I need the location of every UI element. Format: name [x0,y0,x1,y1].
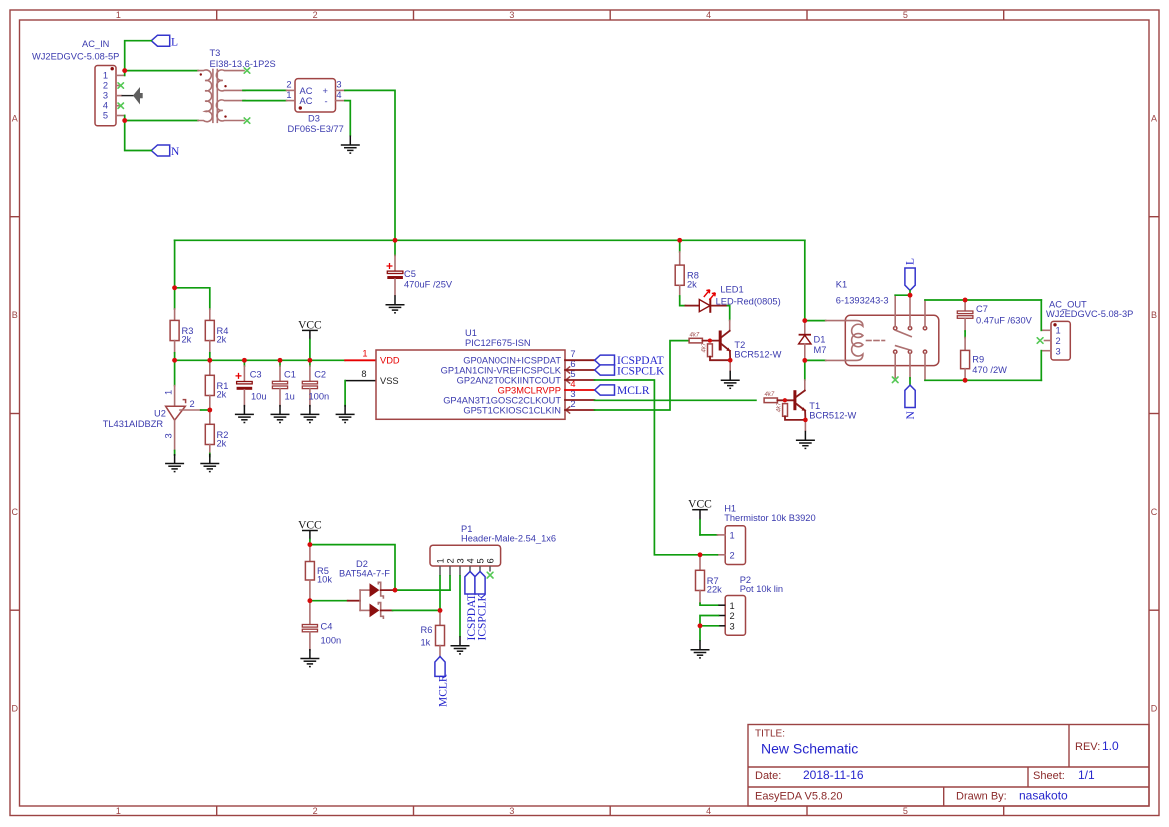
resistor R1 [205,362,228,412]
svg-text:REV:: REV: [1075,741,1100,753]
svg-text:3: 3 [103,91,108,101]
svg-text:4k7: 4k7 [690,332,700,338]
wire D1 to T1 collector [804,360,806,380]
svg-text:0.47uF /630V: 0.47uF /630V [976,316,1033,326]
ground U2 [165,454,184,472]
net flag MCLR [595,385,650,397]
svg-text:N: N [905,411,917,420]
wire D3 pin4 to ground [345,101,350,136]
IC U1 PIC12F675-ISN [376,328,595,419]
wire C7 node to AC_OUT pin1 [1040,300,1042,330]
capacitor C2 [302,360,329,406]
net flag ICSPCLK (P1) [475,572,488,641]
svg-text:1: 1 [436,558,446,563]
svg-text:100n: 100n [309,392,330,402]
wire D2 bottom node to P1 pin1 / R6 [393,608,443,613]
wire P1 pin3 to ground [459,576,461,636]
svg-text:1: 1 [103,71,108,81]
svg-text:1: 1 [164,390,174,395]
wire D3 pin3 to rail [345,90,395,240]
svg-text:1: 1 [730,530,735,540]
svg-text:D1: D1 [814,334,826,344]
svg-text:T3: T3 [210,48,221,58]
net flag N (relay) [905,378,917,420]
svg-text:LED1: LED1 [720,284,743,294]
svg-text:T2: T2 [734,340,745,350]
svg-text:ICSPCLK: ICSPCLK [476,593,488,641]
wire D2 top node to P1 pin2 [395,589,450,591]
power VCC [298,319,322,360]
svg-text:GP0AN0CIN+ICSPDAT: GP0AN0CIN+ICSPDAT [463,356,561,366]
wire R5/C4 node to D2 [310,600,360,602]
transistor T2 BCR512-W [689,320,782,370]
svg-text:C1: C1 [284,370,296,380]
wire GP2 pin5 to thermistor node [595,380,701,555]
no-connect X relay NC [892,377,898,383]
wire rail to R3/R4 tops [172,286,210,321]
svg-text:GP1AN1CIN-VREFICSPCLK: GP1AN1CIN-VREFICSPCLK [441,366,562,376]
wire P2 pin2/pin3 to ground [698,616,719,641]
resistor R4 [205,320,228,352]
svg-text:T1: T1 [809,401,820,411]
wire R9 node to AC_OUT pin3 [1040,351,1042,381]
transistor T1 BCR512-W [764,380,856,431]
resistor R6 [421,610,445,656]
svg-text:ICSPCLK: ICSPCLK [617,365,665,377]
svg-text:2k: 2k [217,390,227,400]
ground C5 [386,295,405,313]
svg-text:BCR512-W: BCR512-W [734,350,781,360]
svg-text:2k: 2k [182,335,192,345]
wire LED1 to T2 collector [728,306,730,321]
svg-text:PIC12F675-ISN: PIC12F675-ISN [465,338,531,348]
svg-text:GP2AN2T0CKIINTCOUT: GP2AN2T0CKIINTCOUT [457,376,562,386]
svg-text:VDD: VDD [380,356,400,366]
svg-text:TITLE:: TITLE: [755,729,785,740]
power VCC (bottom left) [298,519,322,546]
svg-text:R6: R6 [421,625,433,635]
svg-text:4: 4 [103,101,108,111]
ground C1 [271,405,290,423]
wire R7 to P2 pin1 [700,603,718,605]
svg-text:B: B [1151,310,1157,320]
svg-text:2018-11-16: 2018-11-16 [803,768,864,782]
svg-text:1: 1 [730,601,735,611]
svg-text:New Schematic: New Schematic [761,741,858,757]
wire P1 pin1 down [439,576,441,610]
no-connect X T3 bottom [244,118,250,123]
svg-text:U2: U2 [154,409,166,419]
no-connect X P1 pin6 [487,572,493,578]
svg-text:2: 2 [313,10,318,20]
svg-text:DF06S-E3/77: DF06S-E3/77 [288,124,344,134]
relay K1 [805,280,939,381]
svg-text:3: 3 [509,10,514,20]
svg-text:AC: AC [300,86,313,96]
svg-text:1: 1 [1056,326,1061,336]
ground R2 [200,454,219,472]
connector P2 Pot 10k lin [718,575,783,635]
svg-text:3: 3 [456,558,466,563]
wire relay top contact to C7 node [925,299,1041,301]
junction D2 top / VCC / P1 pin2 [393,588,398,593]
ground P1 pin3 [451,636,470,654]
svg-text:1u: 1u [285,392,295,402]
svg-text:4k7: 4k7 [702,342,708,352]
svg-text:VCC: VCC [298,319,322,331]
svg-text:3: 3 [1056,346,1061,356]
svg-text:1: 1 [116,10,121,20]
no-connect X AC_OUT pin2 [1037,338,1043,344]
wire VCC to P1 pin2 branch [310,545,395,591]
svg-text:1: 1 [286,90,291,100]
ground C2 [300,405,319,423]
wire MCLR pin4 [565,389,595,391]
svg-text:A: A [1151,114,1157,124]
svg-text:2k: 2k [687,279,697,289]
svg-text:VCC: VCC [688,499,712,511]
svg-text:1: 1 [362,349,367,359]
svg-text:5: 5 [103,111,108,121]
svg-text:4k7: 4k7 [765,392,775,398]
svg-text:C4: C4 [321,622,333,632]
svg-text:2: 2 [286,80,291,90]
net flag ICSPDAT (P1) [465,572,478,641]
svg-text:EI38-13.6-1P2S: EI38-13.6-1P2S [210,59,276,69]
svg-text:GP4AN3T1GOSC2CLKOUT: GP4AN3T1GOSC2CLKOUT [443,396,561,406]
svg-text:1.0: 1.0 [1102,739,1119,753]
svg-text:3: 3 [730,621,735,631]
wire pin5 to N and T3 [125,116,152,151]
svg-text:M7: M7 [814,345,827,355]
svg-text:Header-Male-2.54_1x6: Header-Male-2.54_1x6 [461,534,556,544]
svg-text:3: 3 [509,806,514,816]
svg-text:P1: P1 [461,524,472,534]
resistor R9 [961,338,1008,383]
svg-text:D2: D2 [356,559,368,569]
ground D3 [341,136,360,154]
resistor R3 [170,320,193,352]
svg-text:4: 4 [706,806,711,816]
wire R8 to LED1 [680,296,686,306]
svg-text:C3: C3 [250,370,262,380]
wire T3 to D3 pin1 [243,100,287,102]
svg-text:4: 4 [706,10,711,20]
svg-text:C2: C2 [314,370,326,380]
svg-text:1k: 1k [421,637,431,647]
svg-text:TL431AIDBZR: TL431AIDBZR [103,419,164,429]
svg-text:MCLR: MCLR [617,385,650,397]
net flag ICSPCLK [595,365,665,378]
no-connect X pin4 [118,103,124,108]
bridge rectifier D3 [286,79,344,134]
net flag ICSPDAT [595,355,664,367]
svg-text:470 /2W: 470 /2W [972,365,1007,375]
svg-text:C: C [11,507,18,517]
svg-text:LED-Red(0805): LED-Red(0805) [716,296,781,306]
svg-text:Thermistor 10k B3920: Thermistor 10k B3920 [724,513,815,523]
capacitor C3 [236,360,267,406]
svg-text:WJ2EDGVC-5.08-5P: WJ2EDGVC-5.08-5P [32,52,119,62]
svg-text:N: N [171,146,180,158]
ground C4 [300,649,319,667]
svg-text:2: 2 [103,81,108,91]
svg-text:3: 3 [164,433,174,438]
transformer T3 [198,48,276,122]
wire main DC rail [175,239,805,241]
wire GP5 pin2 to T2 base [595,341,690,410]
svg-text:D3: D3 [308,113,320,123]
svg-text:GP5T1CKIOSC1CLKIN: GP5T1CKIOSC1CLKIN [463,406,561,416]
wire GP4 pin3 to T1 base [595,399,756,401]
svg-text:H1: H1 [724,504,736,514]
net flag MCLR (R6) [435,657,449,708]
svg-text:K1: K1 [836,280,847,290]
net flag L (relay) [905,258,917,290]
svg-text:5: 5 [903,806,908,816]
svg-text:MCLR: MCLR [437,674,449,707]
svg-text:AC_OUT: AC_OUT [1049,300,1087,310]
title block [748,725,1149,807]
wire pin1 to L and T3 [125,41,152,76]
svg-text:4: 4 [466,558,476,563]
resistor R7 [696,555,723,603]
svg-text:EasyEDA V5.8.20: EasyEDA V5.8.20 [755,791,842,803]
dual diode D2 BAT54A-7-F [339,559,395,618]
svg-text:2: 2 [1056,336,1061,346]
svg-text:2: 2 [313,806,318,816]
svg-text:BCR512-W: BCR512-W [809,411,856,421]
svg-text:C: C [1151,507,1158,517]
svg-text:2: 2 [730,550,735,560]
no-connect X pin2 [118,83,124,88]
svg-text:WJ2EDGVC-5.08-3P: WJ2EDGVC-5.08-3P [1046,309,1133,319]
shunt reference U2 TL431AIDBZR [103,360,210,455]
capacitor C7 [957,298,1032,338]
wire VCC rail [172,353,345,363]
wire rail to D1 [804,240,806,320]
svg-text:2: 2 [730,611,735,621]
svg-text:4k7: 4k7 [777,402,783,412]
svg-text:2k: 2k [217,335,227,345]
svg-text:U1: U1 [465,328,477,338]
svg-text:10u: 10u [251,392,267,402]
svg-text:L: L [905,258,917,265]
wire VSS pin8 to ground [345,369,376,406]
svg-text:VCC: VCC [298,519,322,531]
svg-text:Date:: Date: [755,770,781,782]
net flag N [151,145,180,158]
svg-text:470uF /25V: 470uF /25V [404,280,453,290]
svg-text:7: 7 [570,349,575,359]
capacitor C1 [272,360,295,406]
wire GP2 node to H1 pin2 [698,553,718,558]
ground P2 [691,640,710,658]
svg-text:10k: 10k [317,574,332,584]
svg-text:2: 2 [190,399,195,409]
diode D1 M7 [799,318,827,362]
svg-text:L: L [171,36,178,48]
svg-text:100n: 100n [321,635,342,645]
svg-text:AC_IN: AC_IN [82,39,109,49]
wire P1 pin2 down [449,576,451,590]
capacitor C4 [302,601,341,650]
wire L to relay pins [895,290,912,297]
mouse cursor [122,95,134,97]
connector H1 Thermistor [717,504,815,565]
svg-text:+: + [323,86,328,96]
wire relay bottom contact to R9 node [925,379,1041,381]
svg-text:B: B [12,310,18,320]
capacitor C5 [387,240,453,295]
ground VSS [336,405,355,423]
svg-text:22k: 22k [707,585,722,595]
svg-text:C5: C5 [404,269,416,279]
ground T1 [796,431,815,449]
svg-text:VSS: VSS [380,376,399,386]
wire VDD pin1 [345,349,376,361]
svg-text:2k: 2k [217,439,227,449]
svg-text:6: 6 [486,558,496,563]
svg-text:nasakoto: nasakoto [1019,789,1068,803]
resistor R2 [205,410,228,457]
resistor R8 [675,240,699,296]
connector AC_IN [32,39,125,126]
svg-text:Sheet:: Sheet: [1033,770,1065,782]
svg-text:1/1: 1/1 [1078,768,1095,782]
ground T2 [721,371,740,389]
svg-text:C7: C7 [976,304,988,314]
svg-text:2: 2 [446,558,456,563]
svg-text:1: 1 [116,806,121,816]
svg-text:5: 5 [476,558,486,563]
svg-text:Pot 10k lin: Pot 10k lin [740,584,783,594]
resistor R5 [305,545,332,603]
svg-text:R9: R9 [972,355,984,365]
svg-text:D: D [1151,704,1158,714]
svg-text:6-1393243-3: 6-1393243-3 [836,296,889,306]
wire T3 to D3 pin2 [243,89,287,91]
svg-text:AC: AC [300,96,313,106]
svg-text:8: 8 [361,369,366,379]
wire VCC to H1 pin1 [700,534,717,536]
svg-text:3: 3 [336,80,341,90]
svg-text:A: A [12,114,18,124]
svg-text:Drawn By:: Drawn By: [956,791,1007,803]
connector P1 Header-Male-2.54_1x6 [430,524,556,576]
LED LED1 [685,284,780,313]
svg-text:D: D [11,704,18,714]
svg-text:5: 5 [903,10,908,20]
no-connect X T3 top [244,68,250,73]
svg-text:4: 4 [336,90,341,100]
net flag L [151,35,178,48]
svg-text:GP3MCLRVPP: GP3MCLRVPP [498,386,561,396]
svg-text:-: - [325,97,328,107]
power VCC (H1) [688,499,712,535]
ground C3 [235,405,254,423]
junction dots overlay [122,68,967,628]
connector AC_OUT [1041,300,1133,361]
svg-text:BAT54A-7-F: BAT54A-7-F [339,569,390,579]
